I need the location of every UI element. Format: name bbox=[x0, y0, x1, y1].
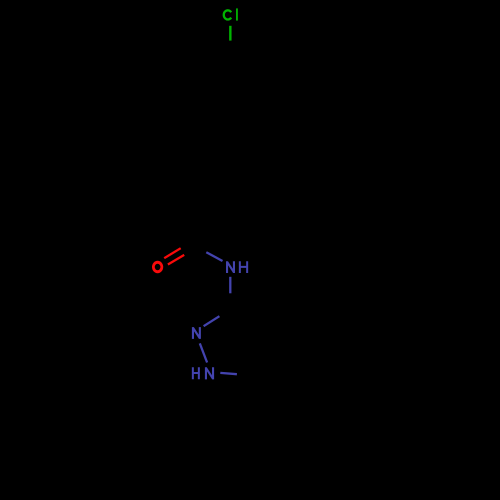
bond N2-N1 bbox=[200, 343, 207, 362]
atom label ring N1 : letter N bbox=[206, 367, 213, 379]
atom label Cl : letter l bbox=[236, 8, 238, 20]
bond C(=O)-N amide (blue half) bbox=[206, 252, 222, 261]
bond C3=N2 (blue half) bbox=[204, 316, 220, 326]
bond N(H)-C3 (blue half) bbox=[229, 277, 231, 294]
atom label ring N2 bbox=[193, 327, 200, 339]
atom label Cl : letter C bbox=[224, 10, 231, 19]
bond C=O main line (red half) bbox=[164, 248, 181, 258]
atom label amide H bbox=[240, 261, 247, 273]
bond Cl-aryl (green half) bbox=[229, 26, 231, 41]
atom label amide N bbox=[227, 261, 234, 273]
bond N1-C5 (blue half) bbox=[220, 373, 237, 374]
atom label O (carbonyl) bbox=[152, 261, 163, 273]
bond C=O second line (red half) bbox=[168, 255, 184, 265]
atom label ring N1 : letter H bbox=[193, 367, 199, 379]
